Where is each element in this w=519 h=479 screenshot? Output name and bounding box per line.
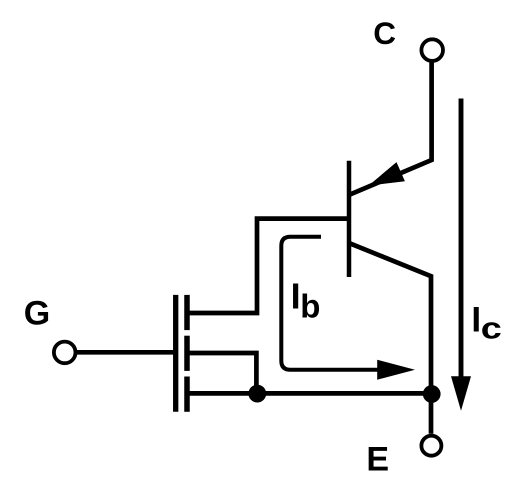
svg-text:I: I (291, 276, 301, 317)
svg-text:c: c (481, 312, 502, 346)
svg-text:E: E (366, 441, 389, 479)
svg-text:b: b (300, 288, 320, 325)
svg-text:I: I (471, 300, 481, 339)
svg-text:G: G (24, 295, 50, 333)
svg-text:C: C (373, 15, 396, 51)
